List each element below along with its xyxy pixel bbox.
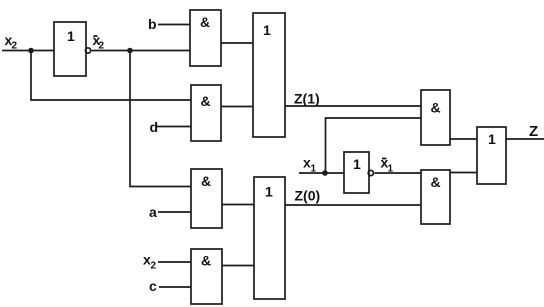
svg-text:1: 1 [265, 184, 273, 200]
inverter INV1 x2 [54, 22, 91, 76]
and-gate AND6 [191, 249, 222, 304]
svg-text:Z(0): Z(0) [295, 188, 321, 204]
svg-text:1: 1 [353, 156, 361, 172]
svg-text:&: & [201, 93, 211, 109]
wire AND6 output [222, 265, 254, 267]
svg-text:2: 2 [99, 41, 105, 52]
wire x2 lower branch to AND2 [31, 51, 191, 101]
node x̄1 label [381, 155, 394, 175]
svg-text:1: 1 [263, 22, 271, 38]
wire AND1 output [221, 42, 253, 44]
and-gate AND1 [190, 10, 221, 66]
node x2 junction [28, 48, 34, 54]
wire x1 input [299, 172, 344, 174]
and-gate AND3 [421, 90, 450, 145]
svg-text:1: 1 [488, 131, 496, 147]
wire AND2 output [221, 106, 253, 108]
svg-text:&: & [431, 174, 441, 190]
svg-text:Z(1): Z(1) [294, 91, 320, 107]
svg-text:&: & [201, 173, 211, 189]
node x̄2 label [93, 32, 105, 52]
wire d input [157, 126, 191, 128]
wire x2 lower input [158, 261, 191, 263]
and-gate AND2 [191, 85, 221, 141]
wire x̄2 lower branch to AND5 [130, 51, 191, 187]
svg-text:a: a [149, 204, 157, 220]
wire Z output [506, 138, 544, 140]
wire x1 riser to AND3 [326, 118, 422, 173]
node x̄2 junction [127, 48, 133, 54]
wire x̄2 from INV1 to AND1 [92, 50, 191, 52]
wire AND3 output [450, 138, 477, 140]
wire b input [158, 24, 190, 26]
and-gate AND4 [421, 170, 450, 224]
svg-text:&: & [201, 253, 211, 269]
wire a input [158, 211, 191, 213]
svg-text:2: 2 [151, 261, 157, 272]
svg-text:1: 1 [67, 28, 75, 44]
svg-text:d: d [150, 119, 159, 135]
svg-text:c: c [149, 278, 157, 294]
wire Z(0) [285, 204, 421, 206]
svg-text:&: & [431, 100, 441, 116]
and-gate AND5 [191, 169, 222, 228]
wire x̄1 to AND4 [375, 172, 422, 174]
or-gate OR2 [254, 177, 285, 299]
or-gate OR1 [253, 13, 285, 137]
wire Z(1) [285, 105, 421, 107]
wire c input [159, 286, 191, 288]
svg-text:b: b [148, 16, 157, 32]
wire AND5 output [222, 204, 254, 206]
node x1 label [303, 155, 317, 175]
wire AND4 output [450, 172, 477, 174]
or-gate OR3 [477, 127, 506, 184]
wire x2 input [2, 50, 54, 52]
node x2 lower label [143, 252, 157, 272]
node x2 input label [5, 32, 18, 52]
inverter INV2 x1 [344, 152, 373, 193]
node x1 junction [322, 170, 328, 176]
svg-text:Z: Z [529, 123, 538, 140]
svg-text:&: & [200, 14, 210, 30]
